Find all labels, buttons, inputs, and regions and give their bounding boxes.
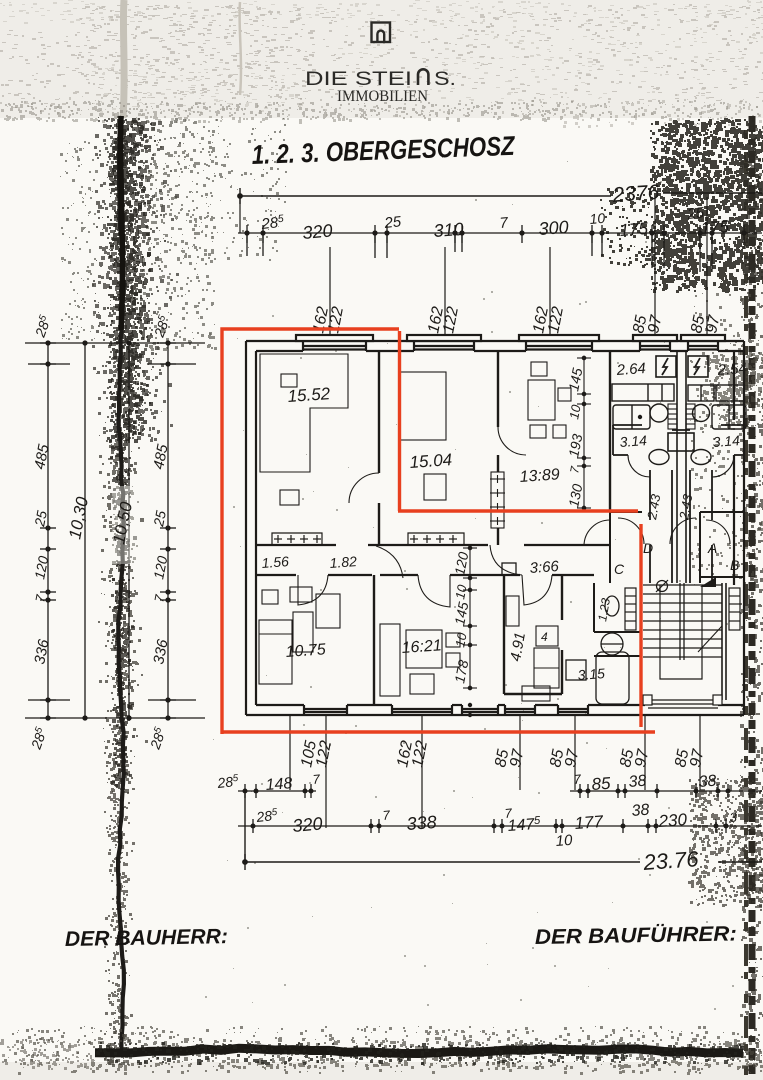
hall D wall bbox=[610, 512, 642, 583]
kitchen 254 counters bbox=[688, 385, 746, 429]
svg-text:15.52: 15.52 bbox=[287, 384, 331, 406]
header gray streak bbox=[123, 0, 124, 118]
svg-text:10.75: 10.75 bbox=[285, 641, 326, 661]
red highlight bottom bbox=[222, 730, 655, 733]
radiator niche 1 bbox=[272, 533, 322, 545]
kitchen 264 sink bbox=[650, 404, 668, 422]
sparse dots bbox=[205, 153, 741, 1010]
north triangle bbox=[700, 577, 716, 587]
inner chain room 1389 bbox=[577, 356, 591, 510]
stairwell treads bbox=[643, 585, 722, 679]
corridor door arcs bbox=[298, 545, 552, 607]
svg-text:230: 230 bbox=[657, 810, 688, 831]
kitchen 491 right wall / bath wall bbox=[504, 575, 562, 694]
svg-text:16:21: 16:21 bbox=[401, 637, 442, 657]
entrance steps bbox=[643, 695, 722, 708]
furniture room 1552 wardrobe bbox=[260, 354, 348, 505]
svg-text:10: 10 bbox=[589, 210, 606, 227]
svg-text:1.56: 1.56 bbox=[261, 553, 290, 571]
wc 123 fixture bbox=[605, 596, 619, 616]
svg-text:310: 310 bbox=[433, 219, 464, 241]
svg-text:320: 320 bbox=[302, 220, 334, 243]
left scan line bbox=[118, 116, 124, 1054]
left noise cloud mid bbox=[98, 440, 148, 793]
left noise core mid bbox=[110, 440, 137, 789]
kitchen 254 hatch bbox=[686, 404, 695, 429]
svg-text:IMMOBILIEN: IMMOBILIEN bbox=[337, 88, 428, 105]
svg-text:175: 175 bbox=[700, 217, 730, 238]
svg-text:15.04: 15.04 bbox=[409, 450, 453, 472]
svg-text:3.14: 3.14 bbox=[712, 432, 741, 450]
outer wall left bbox=[246, 341, 256, 715]
svg-text:3.15: 3.15 bbox=[577, 665, 606, 683]
toilet right bbox=[691, 450, 711, 465]
wall between rooms 1504 and 1389 bbox=[497, 351, 499, 545]
red highlight vertical right bbox=[639, 524, 642, 727]
svg-text:38: 38 bbox=[631, 801, 650, 819]
right mid speckle bbox=[690, 293, 763, 580]
transition band speckle bbox=[1, 100, 760, 124]
svg-text:DIE STEI: DIE STEI bbox=[305, 68, 412, 90]
svg-text:2.64: 2.64 bbox=[615, 360, 646, 379]
right hall walls bbox=[700, 512, 744, 583]
radiator column between 1504 and corridor bbox=[490, 472, 505, 528]
kitchen 491 fixtures bbox=[506, 596, 559, 701]
bottom window extension lines bbox=[290, 716, 700, 828]
kitchen 264 counters bbox=[612, 384, 674, 429]
stair circle symbol bbox=[656, 580, 668, 592]
bottom scan bar bbox=[95, 1048, 743, 1053]
outer wall right bbox=[734, 341, 744, 715]
shaft box right with lightning bbox=[688, 356, 708, 377]
wc 123 walls bbox=[594, 583, 640, 656]
corridor 243 left walls bbox=[650, 470, 672, 583]
svg-text:2.54: 2.54 bbox=[716, 360, 747, 379]
top dimension chain line bbox=[238, 225, 762, 272]
right scan line 2 bbox=[744, 130, 748, 1075]
bottom right blob bbox=[688, 778, 763, 907]
svg-text:A: A bbox=[707, 540, 717, 556]
stair stringer bbox=[680, 583, 684, 660]
header smudge bbox=[0, 0, 763, 114]
header speckle bbox=[0, 4, 763, 112]
kitchen 491 left wall bbox=[503, 575, 505, 694]
svg-text:C: C bbox=[614, 561, 625, 577]
svg-text:4: 4 bbox=[541, 630, 548, 644]
bottom band speckle bbox=[4, 1026, 763, 1075]
svg-text:1.82: 1.82 bbox=[329, 553, 358, 571]
furniture room 1389 table and chairs bbox=[528, 362, 571, 438]
bath 314 door arcs bbox=[628, 455, 734, 477]
left noise core upper bbox=[106, 118, 153, 443]
svg-text:320: 320 bbox=[292, 813, 324, 836]
right edge speckle bbox=[740, 116, 763, 1071]
corridor top wall bbox=[256, 544, 610, 546]
kitchen 254 sink bbox=[693, 405, 710, 422]
top right blob bbox=[600, 118, 763, 293]
transition band speckle 2 bbox=[0, 96, 763, 128]
furniture room 1621 bbox=[380, 624, 460, 696]
svg-text:B: B bbox=[730, 557, 739, 573]
left noise cloud upper bbox=[92, 116, 181, 443]
hall door arc A bbox=[670, 518, 696, 544]
svg-text:S.: S. bbox=[434, 68, 456, 90]
corridor column box bbox=[502, 563, 516, 575]
corridor bottom wall bbox=[256, 574, 594, 576]
hall door arc C bbox=[584, 520, 610, 546]
svg-text:300: 300 bbox=[538, 217, 569, 239]
left noise cloud lower bbox=[104, 791, 135, 1067]
svg-text:10: 10 bbox=[555, 832, 573, 850]
svg-text:23.76: 23.76 bbox=[642, 846, 700, 875]
svg-text:148: 148 bbox=[265, 775, 293, 794]
svg-text:3.14: 3.14 bbox=[619, 432, 648, 450]
logo glyph inverted U bbox=[418, 69, 428, 85]
bottom left corner speckle bbox=[0, 1038, 96, 1070]
left scan line bold top bbox=[121, 116, 123, 330]
wall between rooms 1075 and 1621 bbox=[373, 575, 375, 705]
stair cut line bbox=[698, 626, 722, 652]
door arc room 1389 bbox=[498, 427, 526, 455]
bottom bar rough edge bbox=[96, 1042, 744, 1065]
red highlight vertical mid bbox=[398, 331, 401, 511]
bottom wall junction dots bbox=[468, 703, 472, 717]
svg-text:3:66: 3:66 bbox=[529, 558, 560, 577]
svg-text:175: 175 bbox=[619, 219, 649, 240]
shaft box left with lightning bbox=[656, 356, 676, 377]
centre wall between the two kitchens bbox=[677, 351, 686, 583]
svg-text:DER BAUHERR:: DER BAUHERR: bbox=[65, 925, 228, 951]
outer wall bottom bbox=[246, 705, 744, 715]
kitchen 264 hatch bbox=[668, 404, 677, 429]
svg-text:D: D bbox=[643, 540, 653, 556]
svg-text:25: 25 bbox=[150, 509, 169, 529]
svg-text:85: 85 bbox=[591, 774, 612, 794]
left dimension assembly bbox=[25, 341, 205, 720]
outer wall top bbox=[246, 335, 744, 351]
toilet left bbox=[649, 450, 669, 465]
red highlight left and top bbox=[222, 329, 399, 734]
red highlight horizontal mid bbox=[398, 509, 638, 512]
header smudge right bbox=[338, 21, 763, 61]
svg-text:2376: 2376 bbox=[611, 181, 661, 207]
bottom chain row 1 bbox=[238, 784, 762, 798]
svg-text:338: 338 bbox=[406, 812, 437, 834]
svg-text:38: 38 bbox=[628, 772, 647, 790]
stair right wall bbox=[722, 583, 726, 700]
radiator niche 2 bbox=[408, 533, 464, 545]
radiator right of stair bbox=[729, 588, 740, 630]
svg-text:38: 38 bbox=[698, 772, 717, 790]
furniture room 1075 bbox=[259, 587, 340, 684]
svg-text:13:89: 13:89 bbox=[519, 466, 560, 486]
window extension lines top bbox=[240, 196, 707, 341]
centre duct box bbox=[668, 433, 694, 451]
bottom overall line 2376 bbox=[243, 791, 762, 870]
corridor 243 right walls bbox=[690, 470, 712, 583]
header crease bbox=[240, 2, 241, 95]
radiator left of stair bbox=[625, 588, 636, 630]
svg-text:25: 25 bbox=[383, 213, 403, 232]
svg-text:25: 25 bbox=[31, 509, 50, 529]
left noise right tail bbox=[60, 118, 287, 351]
svg-text:DER BAUFÜHRER:: DER BAUFÜHRER: bbox=[535, 922, 737, 949]
right scan line bbox=[749, 116, 756, 1075]
bath 314 walls bbox=[613, 425, 744, 455]
hall door arc B bbox=[706, 520, 730, 544]
furniture room 1504 bbox=[400, 372, 446, 500]
top overall dimension line 2376 bbox=[238, 188, 762, 204]
logo house icon bbox=[372, 23, 391, 43]
bottom chain row 2 bbox=[238, 819, 762, 833]
svg-text:177: 177 bbox=[574, 812, 604, 833]
door arc room 1552 bbox=[349, 473, 379, 503]
hall door arc D bbox=[618, 518, 644, 544]
wall between room 1389 and kitchen 264 bbox=[609, 351, 611, 512]
bath 315 tub bbox=[566, 633, 629, 704]
wall between rooms 1552 and 1504 bbox=[378, 351, 380, 545]
inner chain room 1621 bbox=[463, 545, 477, 690]
